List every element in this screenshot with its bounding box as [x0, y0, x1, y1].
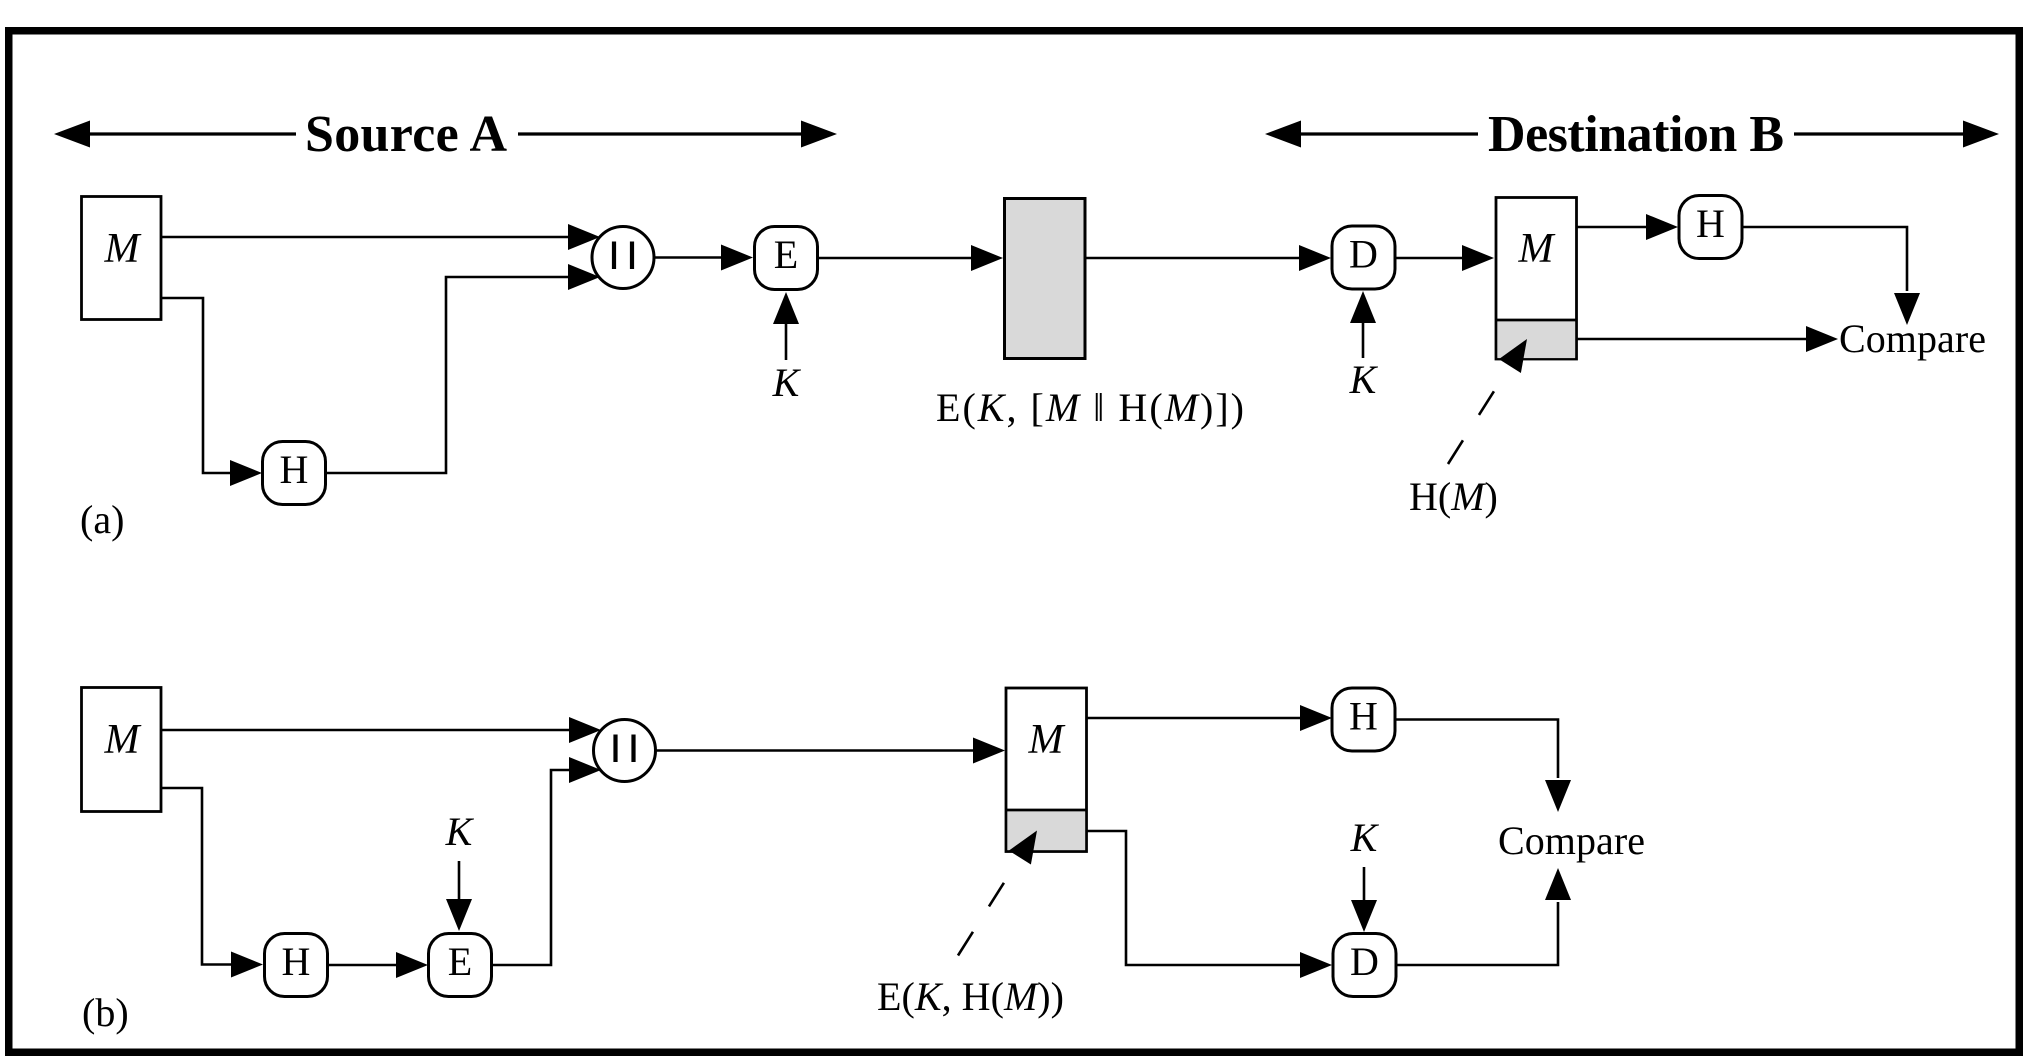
wire K to E (a) [785, 322, 788, 360]
received message box M with encrypted hash field (b) [1006, 688, 1087, 852]
concatenation node || source (a) [592, 227, 654, 289]
wire K to D (b) [1363, 867, 1366, 901]
wire hash field to D (b) [1087, 831, 1301, 965]
hash node H source (b) [265, 934, 328, 997]
svg-text:K: K [1350, 815, 1380, 860]
wire E to ciphertext block (a) [818, 257, 973, 260]
svg-text:K: K [1349, 357, 1379, 402]
arrowhead into D (b) [1300, 952, 1332, 978]
svg-text:E: E [448, 939, 472, 984]
arrowhead into H (b dest) [1300, 705, 1332, 731]
arrowhead up into compare (b) [1545, 868, 1571, 900]
arrowhead into concat top (b) [569, 717, 601, 743]
arrowhead down into compare (b) [1545, 780, 1571, 812]
svg-text:E: E [774, 232, 798, 277]
svg-text:D: D [1349, 232, 1378, 277]
wire H down to compare (b) [1395, 720, 1558, 779]
box M source (b) [82, 688, 162, 812]
wire D up to compare (b) [1396, 902, 1559, 965]
wire M box to H (b dest) [1087, 717, 1303, 720]
svg-text:Compare: Compare [1839, 316, 1986, 361]
arrowhead into H (a) [230, 460, 262, 486]
wire hash field to compare (a) [1577, 338, 1807, 341]
received message box M with hash field (a) [1496, 198, 1577, 360]
arrowhead K into D (a) [1350, 291, 1376, 323]
svg-text:E(K, [M ‖ H(M)]): E(K, [M ‖ H(M)]) [936, 385, 1244, 430]
decrypt node D (b) [1333, 934, 1396, 997]
hash node H source (a) [263, 442, 326, 505]
svg-text:H: H [1349, 694, 1378, 739]
arrowhead into concat top (a) [568, 224, 600, 250]
encrypt node E (a) [755, 227, 818, 290]
arrowhead into concat bottom (b) [569, 757, 601, 783]
callout arrowhead into hash field (b) [1009, 831, 1037, 865]
wire concat to M box (b) [655, 749, 976, 752]
arrowhead K into E (a) [773, 292, 799, 324]
wire M down to H (b) [161, 788, 233, 965]
svg-text:M: M [104, 717, 142, 763]
svg-text:H: H [1696, 201, 1725, 246]
svg-text:Source A: Source A [305, 106, 507, 163]
arrowhead down into compare (a) [1894, 293, 1920, 325]
svg-text:M: M [104, 226, 142, 272]
wire H to concat (a) [326, 277, 571, 473]
svg-text:M: M [1028, 717, 1066, 763]
wire M box to H (a dest) [1577, 226, 1647, 229]
svg-text:(b): (b) [82, 990, 129, 1035]
arrowhead into D (a) [1299, 245, 1331, 271]
svg-text:H: H [280, 447, 309, 492]
arrowhead into received M box (a) [1462, 245, 1494, 271]
dashed callout line to hash field (a) [1448, 368, 1509, 464]
hash node H destination (b) [1332, 688, 1395, 751]
box M source (a) [82, 197, 162, 320]
wire M to concat (b) [161, 729, 571, 732]
svg-text:H(M): H(M) [1409, 474, 1498, 519]
Source A span arrow [54, 106, 837, 163]
wire H to E (b) [328, 964, 399, 967]
callout arrowhead into hash field (a) [1499, 339, 1527, 373]
wire ciphertext to D (a) [1086, 257, 1301, 260]
arrowhead into E (b) [396, 952, 428, 978]
arrowhead into received M box (b) [973, 738, 1005, 764]
wire E up to concat (b) [492, 770, 572, 965]
svg-text:Compare: Compare [1498, 818, 1645, 863]
hash node H destination (a) [1679, 196, 1742, 259]
encrypt node E (b) [429, 934, 492, 997]
wire M down to H (a) [161, 298, 232, 473]
decrypt node D (a) [1332, 226, 1395, 289]
svg-text:Destination B: Destination B [1488, 106, 1784, 163]
svg-text:M: M [1518, 226, 1556, 272]
wire D to M box (a) [1395, 257, 1465, 260]
arrowhead into H (a dest) [1646, 214, 1678, 240]
concatenation node || source (b) [594, 720, 656, 782]
wire M to concat (a) [161, 236, 570, 239]
dashed callout line to hash field (b) [958, 859, 1019, 955]
Destination B span arrow [1265, 106, 1999, 163]
svg-text:K: K [445, 809, 475, 854]
svg-text:H: H [282, 939, 311, 984]
svg-text:K: K [772, 360, 802, 405]
arrowhead into compare label (a) [1806, 326, 1838, 352]
arrowhead into E (a) [721, 245, 753, 271]
ciphertext block (a) [1005, 199, 1086, 359]
svg-text:(a): (a) [80, 497, 124, 542]
svg-text:D: D [1350, 939, 1379, 984]
arrowhead into ciphertext block (a) [971, 245, 1003, 271]
svg-text:E(K, H(M)): E(K, H(M)) [877, 974, 1064, 1019]
arrowhead K into D (b) [1351, 900, 1377, 932]
arrowhead K into E (b) [446, 899, 472, 931]
arrowhead into H (b) [231, 952, 263, 978]
wire K to D (a) [1362, 321, 1365, 358]
arrowhead into concat bottom (a) [568, 264, 600, 290]
wire H down to compare (a) [1742, 227, 1907, 291]
wire concat to E (a) [653, 256, 723, 259]
wire K to E (b) [458, 861, 461, 899]
